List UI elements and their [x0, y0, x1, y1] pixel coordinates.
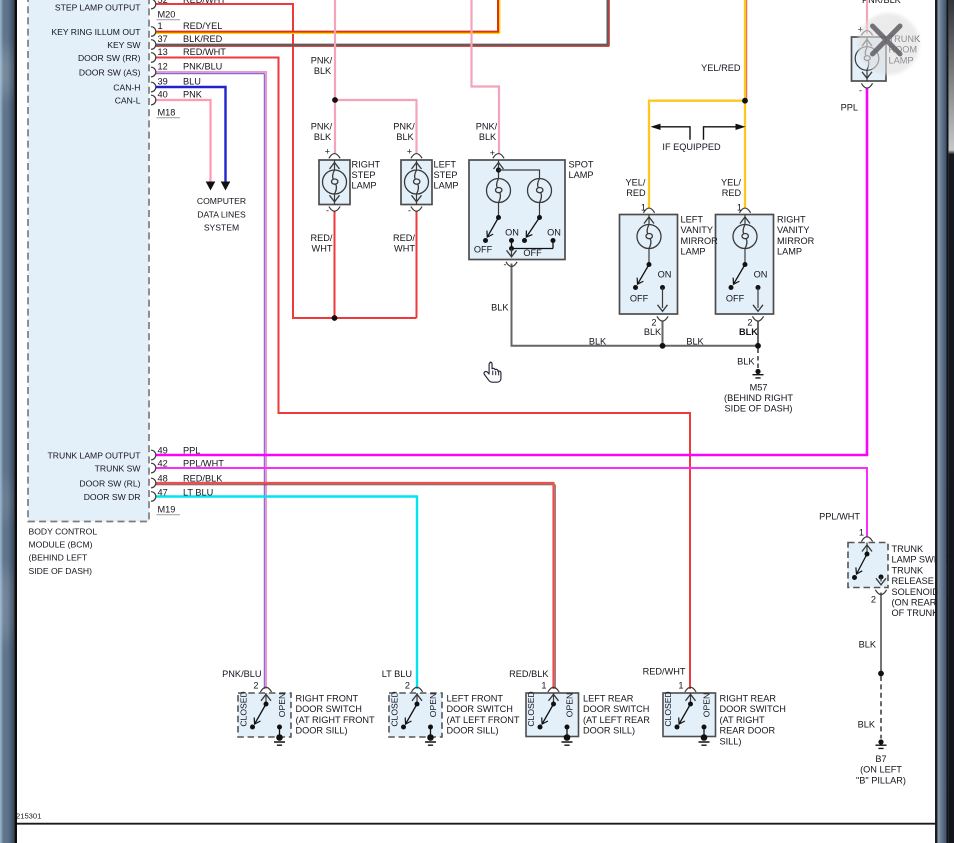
svg-text:-: -: [859, 86, 862, 96]
svg-text:PPL: PPL: [183, 445, 200, 455]
svg-text:BLK: BLK: [858, 720, 876, 730]
wire pin1 RED/YEL: [156, 0, 500, 33]
svg-text:DOOR SILL): DOOR SILL): [583, 726, 635, 736]
svg-text:48: 48: [158, 473, 168, 483]
svg-text:BLK: BLK: [314, 66, 332, 76]
svg-text:SIDE OF DASH): SIDE OF DASH): [725, 404, 793, 414]
bottom border line: [16, 823, 937, 825]
wire pin52 RED/WHT from BCM to step lamp returns: [156, 4, 417, 318]
svg-text:BLK: BLK: [491, 303, 509, 313]
switch LEFT FRONT DOOR SWITCH (dashed box): [389, 687, 442, 745]
svg-text:OPEN: OPEN: [428, 693, 438, 717]
wire BLK right vanity drop: [757, 321, 759, 346]
svg-text:SPOT: SPOT: [569, 159, 594, 169]
svg-text:-: -: [504, 260, 507, 270]
svg-text:BLU: BLU: [183, 76, 201, 86]
svg-text:BLK: BLK: [739, 327, 758, 337]
svg-text:YEL/: YEL/: [721, 177, 741, 187]
svg-text:DOOR SW (RR): DOOR SW (RR): [78, 53, 141, 63]
label YEL/RED left vanity: [626, 177, 647, 198]
svg-text:SOLENOID: SOLENOID: [892, 587, 940, 597]
svg-text:KEY SW: KEY SW: [107, 40, 141, 50]
svg-text:1: 1: [737, 203, 742, 213]
wire pin40 PNK to data lines: [156, 100, 211, 183]
svg-text:ON: ON: [658, 270, 672, 280]
svg-text:ON: ON: [754, 270, 768, 280]
ground M57: [753, 369, 764, 378]
svg-text:12: 12: [158, 61, 168, 71]
wire BLK trunk switch to junction: [880, 593, 882, 674]
svg-text:LAMP: LAMP: [434, 181, 459, 191]
svg-text:ON: ON: [547, 228, 561, 238]
arrows computer data lines: [206, 182, 231, 191]
svg-text:"B" PILLAR): "B" PILLAR): [856, 775, 906, 785]
svg-text:DOOR SILL): DOOR SILL): [447, 726, 499, 736]
svg-text:CLOSED: CLOSED: [390, 691, 400, 726]
svg-text:PNK/: PNK/: [476, 122, 498, 132]
svg-text:RIGHT FRONT: RIGHT FRONT: [296, 694, 359, 704]
svg-text:OFF: OFF: [474, 245, 493, 255]
svg-text:WHT: WHT: [394, 244, 415, 254]
svg-text:LT BLU: LT BLU: [382, 669, 412, 679]
wire PNK/BLK feed spot lamp: [472, 0, 500, 154]
svg-text:OPEN: OPEN: [277, 693, 287, 717]
wire BLK dashed to M57 ground: [757, 349, 759, 369]
label PNK/BLK spot lamp: [476, 122, 498, 143]
BCM pin numbers and wire colors: [157, 0, 227, 515]
svg-text:PNK: PNK: [183, 89, 203, 99]
svg-text:BLK: BLK: [589, 336, 607, 346]
svg-text:RIGHT: RIGHT: [352, 159, 381, 169]
label YEL/RED right vanity: [721, 177, 742, 198]
label TRUNK LAMP SWITCH / TRUNK RELEASE SOLENOID: [892, 544, 954, 618]
svg-text:1: 1: [541, 681, 546, 691]
svg-text:OPEN: OPEN: [565, 693, 575, 717]
svg-text:PPL/WHT: PPL/WHT: [183, 458, 224, 468]
svg-text:MODULE (BCM): MODULE (BCM): [29, 540, 93, 550]
svg-text:B7: B7: [875, 754, 886, 764]
svg-text:BLK: BLK: [396, 132, 414, 142]
svg-text:BLK: BLK: [644, 327, 662, 337]
svg-text:2: 2: [651, 318, 656, 328]
svg-text:STEP: STEP: [352, 170, 376, 180]
svg-text:IF EQUIPPED: IF EQUIPPED: [662, 142, 721, 152]
label COMPUTER DATA LINES SYSTEM: [197, 196, 246, 233]
svg-text:WHT: WHT: [312, 244, 333, 254]
svg-text:RIGHT REAR: RIGHT REAR: [720, 694, 777, 704]
svg-text:RED/: RED/: [311, 233, 333, 243]
svg-text:PNK/: PNK/: [311, 56, 333, 66]
svg-text:(BEHIND LEFT: (BEHIND LEFT: [29, 553, 88, 563]
svg-text:OPEN: OPEN: [702, 693, 712, 717]
svg-text:M19: M19: [158, 505, 176, 515]
svg-text:(AT RIGHT FRONT: (AT RIGHT FRONT: [296, 715, 375, 725]
svg-text:CLOSED: CLOSED: [526, 691, 536, 726]
svg-text:TRUNK: TRUNK: [892, 565, 925, 575]
svg-text:STEP: STEP: [434, 170, 458, 180]
svg-text:2: 2: [253, 681, 258, 691]
svg-text:MIRROR: MIRROR: [777, 236, 815, 246]
svg-text:LAMP: LAMP: [569, 170, 594, 180]
wire right step lamp return RED/WHT: [334, 211, 336, 319]
svg-text:+: +: [407, 147, 412, 157]
svg-text:RED/WHT: RED/WHT: [643, 667, 686, 677]
svg-text:1: 1: [859, 528, 864, 538]
label RIGHT STEP LAMP: [352, 159, 381, 190]
lamp LEFT VANITY MIRROR LAMP: [620, 203, 678, 338]
left edge strip: [0, 0, 17, 843]
svg-text:RELEASE: RELEASE: [892, 576, 934, 586]
svg-text:BLK: BLK: [859, 640, 877, 650]
svg-text:RIGHT: RIGHT: [777, 215, 806, 225]
label SPOT LAMP: [569, 159, 594, 180]
arrows IF EQUIPPED: [651, 124, 746, 140]
lamp RIGHT VANITY MIRROR LAMP: [716, 203, 774, 338]
svg-text:DOOR SW DR: DOOR SW DR: [84, 492, 141, 502]
svg-text:1: 1: [678, 681, 683, 691]
svg-text:(AT RIGHT: (AT RIGHT: [720, 715, 765, 725]
svg-text:REAR DOOR: REAR DOOR: [720, 726, 776, 736]
wire pin48 RED/BLK to left rear door switch: [156, 483, 556, 689]
svg-text:YEL/RED: YEL/RED: [701, 63, 741, 73]
svg-text:BLK/RED: BLK/RED: [183, 34, 223, 44]
node junction BLK bus left: [660, 343, 666, 349]
svg-text:VANITY: VANITY: [777, 225, 810, 235]
wire pin42 PPL/WHT to trunk lamp switch: [156, 468, 868, 538]
wire left step lamp return RED/WHT: [416, 211, 418, 319]
wire YEL/RED feed vanity lamps: [649, 0, 747, 209]
svg-text:M18: M18: [158, 108, 176, 118]
label RIGHT FRONT DOOR SWITCH: [296, 694, 375, 736]
hand cursor: [484, 362, 501, 382]
svg-text:1: 1: [158, 21, 163, 31]
svg-text:RED: RED: [626, 188, 646, 198]
svg-text:40: 40: [158, 89, 168, 99]
X marker over trunk room lamp: [873, 26, 901, 54]
svg-text:LEFT: LEFT: [681, 215, 704, 225]
svg-text:LT BLU: LT BLU: [183, 487, 213, 497]
svg-text:BODY CONTROL: BODY CONTROL: [29, 527, 98, 537]
svg-text:KEY RING ILLUM OUT: KEY RING ILLUM OUT: [51, 27, 141, 37]
svg-text:OFF: OFF: [523, 248, 542, 258]
svg-text:SYSTEM: SYSTEM: [204, 223, 239, 233]
label PNK/BLK right step lamp: [311, 122, 333, 143]
lamp TRUNK ROOM LAMP: [852, 25, 887, 96]
svg-text:RED/WHT: RED/WHT: [183, 47, 226, 57]
svg-text:RED/: RED/: [393, 233, 415, 243]
svg-text:RED/YEL: RED/YEL: [183, 21, 222, 31]
svg-text:DOOR SW (RL): DOOR SW (RL): [79, 478, 140, 488]
svg-text:CAN-H: CAN-H: [113, 82, 140, 92]
wire pin49 PPL to trunk room lamp: [156, 88, 868, 455]
svg-text:RED/WHT: RED/WHT: [183, 0, 226, 5]
svg-text:OFF: OFF: [726, 294, 745, 304]
svg-text:DOOR SW (AS): DOOR SW (AS): [79, 67, 141, 77]
switch TRUNK LAMP SWITCH (dashed box): [848, 528, 888, 605]
svg-text:+: +: [490, 148, 495, 158]
svg-text:PNK/: PNK/: [311, 122, 333, 132]
label LEFT FRONT DOOR SWITCH: [447, 694, 520, 736]
svg-text:LEFT FRONT: LEFT FRONT: [447, 694, 504, 704]
svg-text:ON: ON: [505, 228, 519, 238]
svg-text:M20: M20: [158, 10, 176, 20]
svg-text:VANITY: VANITY: [681, 225, 714, 235]
svg-text:BLK: BLK: [479, 132, 497, 142]
label PNK/BLK near step feed: [311, 56, 333, 77]
svg-text:PPL/WHT: PPL/WHT: [819, 512, 860, 522]
svg-text:PNK/: PNK/: [393, 122, 415, 132]
wire pin37 BLK/RED: [156, 0, 610, 46]
svg-text:PNK/BLU: PNK/BLU: [222, 669, 261, 679]
wire pin13 RED/WHT to right rear door switch: [156, 58, 691, 690]
label RED/WHT right step: [311, 233, 333, 254]
svg-text:(BEHIND RIGHT: (BEHIND RIGHT: [724, 393, 793, 403]
svg-text:-: -: [408, 206, 411, 216]
svg-text:47: 47: [158, 487, 168, 497]
svg-text:39: 39: [158, 76, 168, 86]
svg-text:DATA LINES: DATA LINES: [197, 209, 246, 219]
node junction step lamp returns: [332, 315, 338, 321]
svg-text:CLOSED: CLOSED: [239, 691, 249, 726]
svg-text:STEP LAMP OUTPUT: STEP LAMP OUTPUT: [55, 2, 141, 12]
wire PNK/BLK feed trunk room lamp: [866, 0, 868, 34]
svg-text:CLOSED: CLOSED: [663, 691, 673, 726]
svg-text:LEFT REAR: LEFT REAR: [583, 694, 634, 704]
svg-text:YEL/: YEL/: [626, 177, 646, 187]
label RIGHT VANITY MIRROR LAMP: [777, 215, 815, 257]
label TRUNK ROOM LAMP: [889, 34, 922, 65]
svg-text:49: 49: [158, 445, 168, 455]
node junction trunk BLK: [878, 671, 884, 677]
label RIGHT REAR DOOR SWITCH: [720, 694, 786, 747]
label LEFT VANITY MIRROR LAMP: [681, 215, 719, 257]
svg-text:1: 1: [641, 203, 646, 213]
svg-text:TRUNK LAMP OUTPUT: TRUNK LAMP OUTPUT: [48, 450, 142, 460]
label LEFT REAR DOOR SWITCH: [583, 694, 650, 736]
svg-text:13: 13: [158, 47, 168, 57]
wire BLK left vanity drop: [662, 321, 664, 346]
node junction BLK bus right: [755, 343, 761, 349]
svg-text:+: +: [325, 147, 330, 157]
BCM module box: [28, 0, 149, 522]
svg-text:OFF: OFF: [630, 294, 649, 304]
lamp RIGHT STEP LAMP: [319, 147, 350, 216]
wire pin39 BLU to data lines: [156, 87, 226, 183]
svg-text:42: 42: [158, 458, 168, 468]
svg-text:RED: RED: [722, 188, 742, 198]
svg-text:(AT LEFT FRONT: (AT LEFT FRONT: [447, 715, 520, 725]
svg-text:LEFT: LEFT: [434, 159, 457, 169]
wire PNK/BLK feed step lamps: [335, 0, 417, 154]
label RED/WHT left step: [393, 233, 415, 254]
switch RIGHT REAR DOOR SWITCH (solid box): [663, 687, 716, 745]
svg-text:2: 2: [747, 318, 752, 328]
svg-text:BLK: BLK: [737, 357, 755, 367]
svg-text:(AT LEFT REAR: (AT LEFT REAR: [583, 715, 650, 725]
ground B7: [876, 739, 887, 748]
svg-text:LAMP: LAMP: [352, 181, 377, 191]
switch RIGHT FRONT DOOR SWITCH (dashed box): [238, 687, 291, 745]
wire pin47 LT BLU to left front door switch: [156, 497, 418, 690]
svg-text:DOOR SWITCH: DOOR SWITCH: [583, 704, 649, 714]
switch LEFT REAR DOOR SWITCH (solid box): [526, 687, 579, 745]
svg-text:-: -: [326, 206, 329, 216]
label PNK/BLK left step lamp: [393, 122, 415, 143]
wire BLK spot lamp to ground bus: [512, 264, 759, 346]
label LEFT STEP LAMP: [434, 159, 459, 190]
lamp SPOT LAMP: [469, 148, 565, 270]
svg-text:BLK: BLK: [314, 132, 332, 142]
node junction PNK/BLK step feed: [332, 97, 338, 103]
svg-text:DOOR SILL): DOOR SILL): [296, 726, 348, 736]
svg-text:37: 37: [158, 34, 168, 44]
BCM left pin-name labels: [48, 2, 142, 502]
svg-text:RED/BLK: RED/BLK: [509, 669, 549, 679]
svg-text:BLK: BLK: [686, 336, 704, 346]
svg-text:M57: M57: [750, 383, 768, 393]
svg-text:TRUNK: TRUNK: [892, 544, 925, 554]
watermark disc over trunk room lamp: [858, 13, 920, 75]
svg-text:215301: 215301: [16, 812, 41, 821]
right edge strips: [935, 0, 954, 843]
svg-text:MIRROR: MIRROR: [681, 236, 719, 246]
svg-text:DOOR SWITCH: DOOR SWITCH: [296, 704, 362, 714]
lamp LEFT STEP LAMP: [401, 147, 432, 216]
label B7 ground: [856, 754, 906, 785]
svg-text:COMPUTER: COMPUTER: [197, 196, 246, 206]
svg-text:2: 2: [871, 595, 876, 605]
node junction YEL/RED: [742, 98, 748, 104]
wire BLK dashed to B7 ground: [880, 676, 882, 739]
svg-text:LAMP: LAMP: [777, 247, 802, 257]
svg-text:CAN-L: CAN-L: [115, 95, 141, 105]
svg-text:PPL: PPL: [841, 103, 858, 113]
svg-text:2: 2: [405, 681, 410, 691]
wire pin12 PNK/BLU to right front door switch: [156, 72, 267, 689]
svg-text:52: 52: [158, 0, 168, 5]
svg-text:PNK/BLU: PNK/BLU: [183, 61, 222, 71]
svg-text:DOOR SWITCH: DOOR SWITCH: [720, 704, 786, 714]
svg-text:DOOR SWITCH: DOOR SWITCH: [447, 704, 513, 714]
svg-text:SILL): SILL): [720, 736, 742, 746]
svg-text:RED/BLK: RED/BLK: [183, 473, 223, 483]
svg-text:(ON LEFT: (ON LEFT: [860, 765, 902, 775]
svg-text:TRUNK SW: TRUNK SW: [95, 463, 142, 473]
svg-text:LAMP: LAMP: [681, 247, 706, 257]
svg-text:SIDE OF DASH): SIDE OF DASH): [29, 566, 93, 576]
label M57 ground: [724, 383, 793, 414]
label BODY CONTROL MODULE (BCM): [29, 527, 98, 576]
BCM pin arcs: [151, 0, 156, 501]
